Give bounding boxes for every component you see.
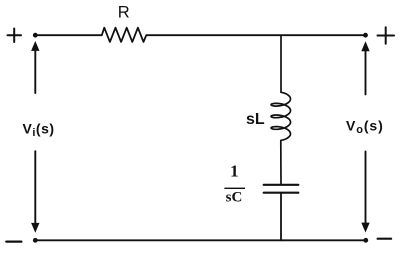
node dot top-right — [363, 33, 368, 38]
wire bottom rail — [35, 239, 366, 241]
arrowhead Vo lower (points down) — [361, 223, 369, 233]
arrow shaft Vi upper — [34, 50, 36, 94]
node dot bottom-left — [33, 238, 38, 243]
svg-text:sC: sC — [226, 189, 243, 205]
node dot top-left — [33, 33, 38, 38]
svg-text:R: R — [118, 4, 130, 22]
svg-text:1: 1 — [230, 162, 239, 181]
svg-text:Vo(s): Vo(s) — [346, 118, 384, 137]
arrowhead Vi upper (points up) — [31, 41, 39, 51]
minus sign bottom-right — [378, 238, 392, 240]
inductor L (sL) with connecting wire from top rail — [271, 35, 290, 184]
capacitor C top plate — [264, 184, 299, 186]
plus sign top-left — [8, 29, 22, 43]
wire top rail with resistor zigzag — [35, 28, 365, 42]
minus sign bottom-left — [6, 241, 21, 243]
plus sign top-right — [378, 27, 395, 44]
node dot bottom-right — [363, 238, 368, 243]
capacitor C bottom plate — [264, 192, 299, 194]
svg-text:Vi(s): Vi(s) — [23, 120, 55, 139]
arrow shaft Vo upper — [365, 50, 367, 94]
arrowhead Vo upper (points up) — [361, 41, 369, 51]
svg-text:sL: sL — [246, 111, 265, 128]
arrowhead Vi lower (points down) — [31, 223, 39, 233]
fraction bar of 1/sC — [224, 188, 245, 189]
wire capacitor to bottom rail — [280, 193, 282, 241]
arrow shaft Vi lower — [34, 151, 36, 224]
arrow shaft Vo lower — [365, 152, 367, 225]
